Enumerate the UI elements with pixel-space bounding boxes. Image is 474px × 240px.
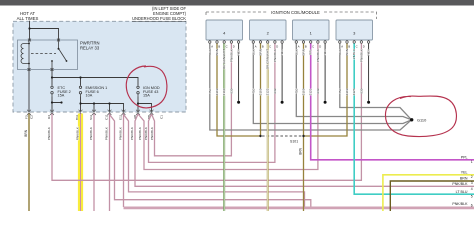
svg-text:OR GRN/WHT: OR GRN/WHT [266, 49, 270, 69]
svg-text:D: D [276, 45, 278, 49]
svg-text:PNK/BLK: PNK/BLK [229, 48, 233, 62]
svg-text:750: 750 [338, 88, 342, 93]
svg-text:IGNITION COIL/MODULE: IGNITION COIL/MODULE [271, 10, 320, 15]
svg-text:D: D [363, 45, 365, 49]
svg-text:PPL: PPL [461, 155, 468, 159]
svg-text:F3: F3 [25, 115, 29, 119]
svg-text:D: D [233, 45, 235, 49]
svg-text:BRN: BRN [259, 49, 263, 56]
svg-text:S11: S11 [89, 114, 93, 120]
svg-text:2109: 2109 [345, 88, 349, 95]
svg-text:PNK/BLK: PNK/BLK [150, 126, 154, 140]
svg-text:A: A [255, 45, 257, 49]
svg-text:C: C [269, 45, 271, 49]
svg-text:15A: 15A [58, 94, 65, 98]
svg-text:5: 5 [471, 195, 473, 199]
svg-text:PNK/BLK: PNK/BLK [144, 126, 148, 140]
svg-text:C: C [226, 45, 228, 49]
svg-text:C: C [356, 45, 358, 49]
svg-text:2122: 2122 [266, 88, 270, 95]
svg-text:2104: 2104 [222, 88, 226, 95]
svg-text:BLK: BLK [294, 48, 298, 55]
svg-text:639: 639 [273, 88, 277, 93]
svg-text:S101: S101 [290, 140, 298, 144]
svg-text:PNK/BLK: PNK/BLK [76, 126, 80, 140]
svg-text:BLK: BLK [338, 48, 342, 55]
svg-text:UNDERHOOD FUSE BLOCK: UNDERHOOD FUSE BLOCK [132, 16, 186, 21]
svg-text:BLK: BLK [251, 48, 255, 55]
svg-text:PNK/BLK: PNK/BLK [119, 126, 123, 140]
svg-text:NCA: NCA [280, 48, 284, 55]
svg-text:15A: 15A [143, 94, 150, 98]
svg-text:B: B [262, 45, 264, 49]
svg-text:LT BLU: LT BLU [456, 190, 468, 194]
svg-text:NCA: NCA [367, 48, 371, 55]
svg-text:4: 4 [471, 187, 473, 191]
svg-text:PNK/BLK: PNK/BLK [47, 126, 51, 140]
svg-text:2121: 2121 [309, 88, 313, 95]
svg-text:A: A [341, 45, 343, 49]
svg-text:B: B [305, 45, 307, 49]
svg-text:B: B [348, 45, 350, 49]
svg-text:G110: G110 [417, 118, 427, 123]
svg-text:C2: C2 [30, 115, 34, 119]
svg-text:C: C [312, 45, 314, 49]
svg-text:BRN: BRN [24, 129, 28, 136]
svg-text:NCA: NCA [323, 48, 327, 55]
svg-text:1: 1 [471, 160, 473, 164]
svg-text:BRN: BRN [345, 49, 349, 56]
svg-text:BRN: BRN [460, 177, 468, 181]
svg-text:639: 639 [316, 88, 320, 93]
svg-text:2: 2 [471, 175, 473, 179]
svg-text:A: A [298, 45, 300, 49]
svg-text:PNK/BLK: PNK/BLK [130, 126, 134, 140]
svg-text:D: D [319, 45, 321, 49]
svg-text:DK GRN/WHT: DK GRN/WHT [222, 49, 226, 69]
svg-text:C1: C1 [160, 115, 164, 119]
svg-text:E11: E11 [119, 114, 123, 120]
svg-text:PNK/BLK: PNK/BLK [105, 126, 109, 140]
svg-text:2109: 2109 [215, 88, 219, 95]
svg-text:RELAY 33: RELAY 33 [80, 46, 100, 51]
svg-text:BLK: BLK [208, 48, 212, 55]
svg-text:PNK/BLK: PNK/BLK [273, 48, 277, 62]
svg-text:PNK/BLK: PNK/BLK [452, 182, 468, 186]
svg-text:750: 750 [251, 88, 255, 93]
svg-text:ALL TIMES: ALL TIMES [17, 16, 39, 21]
svg-text:3: 3 [471, 181, 473, 185]
svg-text:BRN: BRN [298, 147, 302, 154]
svg-text:2123: 2123 [352, 88, 356, 95]
svg-text:BRN: BRN [215, 49, 219, 56]
svg-text:639: 639 [229, 88, 233, 93]
svg-text:B: B [218, 45, 220, 49]
svg-text:A: A [211, 45, 213, 49]
svg-text:PPL: PPL [309, 49, 313, 55]
svg-text:10A: 10A [86, 94, 93, 98]
svg-text:PNK/BLK: PNK/BLK [89, 126, 93, 140]
svg-text:2109: 2109 [302, 88, 306, 95]
svg-text:PNK/BLK: PNK/BLK [452, 202, 468, 206]
svg-text:C11: C11 [105, 114, 109, 120]
svg-text:750: 750 [208, 88, 212, 93]
svg-text:LT BLU: LT BLU [352, 49, 356, 59]
svg-text:YEL: YEL [461, 170, 468, 174]
svg-text:BRN: BRN [302, 49, 306, 56]
svg-text:2109: 2109 [259, 88, 263, 95]
svg-text:750: 750 [294, 88, 298, 93]
svg-text:PNK/BLK: PNK/BLK [316, 48, 320, 62]
svg-text:639: 639 [359, 88, 363, 93]
svg-text:6: 6 [471, 204, 473, 208]
svg-text:NCA: NCA [237, 48, 241, 55]
svg-text:PNK/BLK: PNK/BLK [138, 126, 142, 140]
svg-text:D4: D4 [47, 115, 51, 119]
svg-text:PNK/BLK: PNK/BLK [359, 48, 363, 62]
